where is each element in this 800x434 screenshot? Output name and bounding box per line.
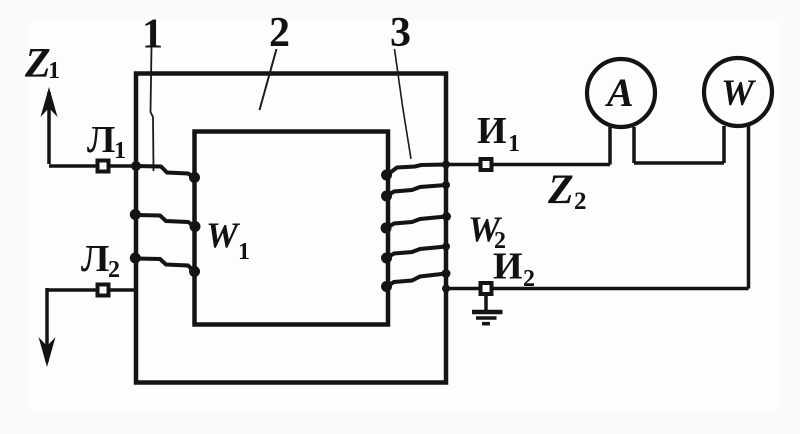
- wattmeter W lead left: [722, 126, 726, 163]
- junction dot sloop2 right: [442, 181, 450, 189]
- junction dot sloop3 left: [381, 223, 392, 234]
- junction dot loop2 left: [130, 209, 141, 220]
- wire ammeter to wattmeter: [634, 161, 724, 165]
- terminal square L1: [98, 161, 109, 172]
- junction node at L1 entry: [131, 161, 141, 171]
- junction dot sloop5 right: [442, 269, 451, 278]
- junction dot loop3 left: [130, 253, 141, 264]
- ground bar 3: [482, 322, 490, 326]
- wattmeter W lead right: [747, 126, 751, 289]
- junction dot sloop2 left: [381, 191, 392, 202]
- secondary winding W2 loop 2: [387, 185, 447, 196]
- junction dot sloop1 left: [381, 170, 392, 181]
- wire up-arrow shaft (Z1 line): [47, 92, 51, 164]
- svg-text:Z: Z: [547, 168, 574, 214]
- wire I2 return (bottom): [446, 287, 749, 291]
- ground stub: [484, 295, 488, 312]
- leader line for label 1: [151, 47, 154, 171]
- secondary winding W2 loop 5: [387, 274, 447, 287]
- terminal square I2: [481, 283, 492, 294]
- primary winding W1 loop 1: [136, 166, 195, 178]
- transformer core window (inner rectangle): [195, 132, 389, 325]
- ammeter A circle: [587, 59, 655, 127]
- junction dot sloop5 left: [381, 281, 392, 292]
- wire down-arrow shaft: [45, 288, 49, 362]
- ammeter A lead right: [632, 127, 636, 163]
- svg-text:Л: Л: [81, 238, 109, 280]
- junction dot at core edge I2: [442, 285, 450, 293]
- svg-text:3: 3: [390, 10, 411, 56]
- primary winding W1 loop 2: [136, 215, 196, 227]
- svg-text:И: И: [477, 110, 507, 152]
- terminal square L2: [98, 285, 109, 296]
- svg-text:1: 1: [508, 131, 520, 157]
- svg-text:2: 2: [108, 257, 120, 283]
- svg-text:W: W: [721, 73, 757, 114]
- junction dot sloop4 right: [442, 243, 450, 251]
- junction dot loop3 right: [189, 266, 200, 277]
- junction dot loop1 right: [189, 172, 200, 183]
- secondary winding W2 loop 1: [387, 165, 446, 176]
- svg-text:1: 1: [114, 138, 126, 164]
- wire I1 to ammeter: [446, 163, 610, 167]
- secondary winding W2 loop 3: [387, 217, 447, 229]
- svg-text:2: 2: [269, 10, 290, 56]
- svg-text:A: A: [604, 70, 634, 115]
- junction dot loop2 right: [190, 221, 201, 232]
- ground bar 2: [476, 316, 497, 320]
- junction dot at core edge I1: [442, 161, 450, 169]
- svg-text:1: 1: [48, 58, 60, 84]
- svg-text:1: 1: [238, 239, 250, 265]
- terminal square I1: [481, 159, 492, 170]
- junction dot sloop4 left: [381, 253, 392, 264]
- leader line for label 2: [260, 49, 277, 110]
- arrowhead down: [39, 337, 56, 367]
- svg-text:1: 1: [142, 12, 163, 58]
- secondary winding W2 loop 4: [387, 247, 447, 259]
- ammeter A lead left: [608, 127, 612, 165]
- svg-text:2: 2: [574, 188, 587, 215]
- svg-text:Л: Л: [87, 119, 115, 161]
- svg-text:Z: Z: [24, 41, 51, 87]
- leader line for label 3: [395, 49, 412, 159]
- wattmeter W circle: [704, 58, 772, 126]
- ground bar 1: [472, 310, 503, 314]
- junction dot sloop3 right: [442, 212, 451, 221]
- transformer core outer outline (item 2): [136, 74, 446, 383]
- wire Z1 to terminal L1: [49, 164, 136, 168]
- svg-text:И: И: [493, 246, 523, 288]
- wire L2 terminal to core: [47, 288, 136, 292]
- svg-text:W: W: [206, 215, 241, 255]
- svg-text:2: 2: [523, 266, 535, 292]
- arrowhead up (to Z1): [41, 87, 58, 117]
- primary winding W1 loop 3: [136, 259, 195, 272]
